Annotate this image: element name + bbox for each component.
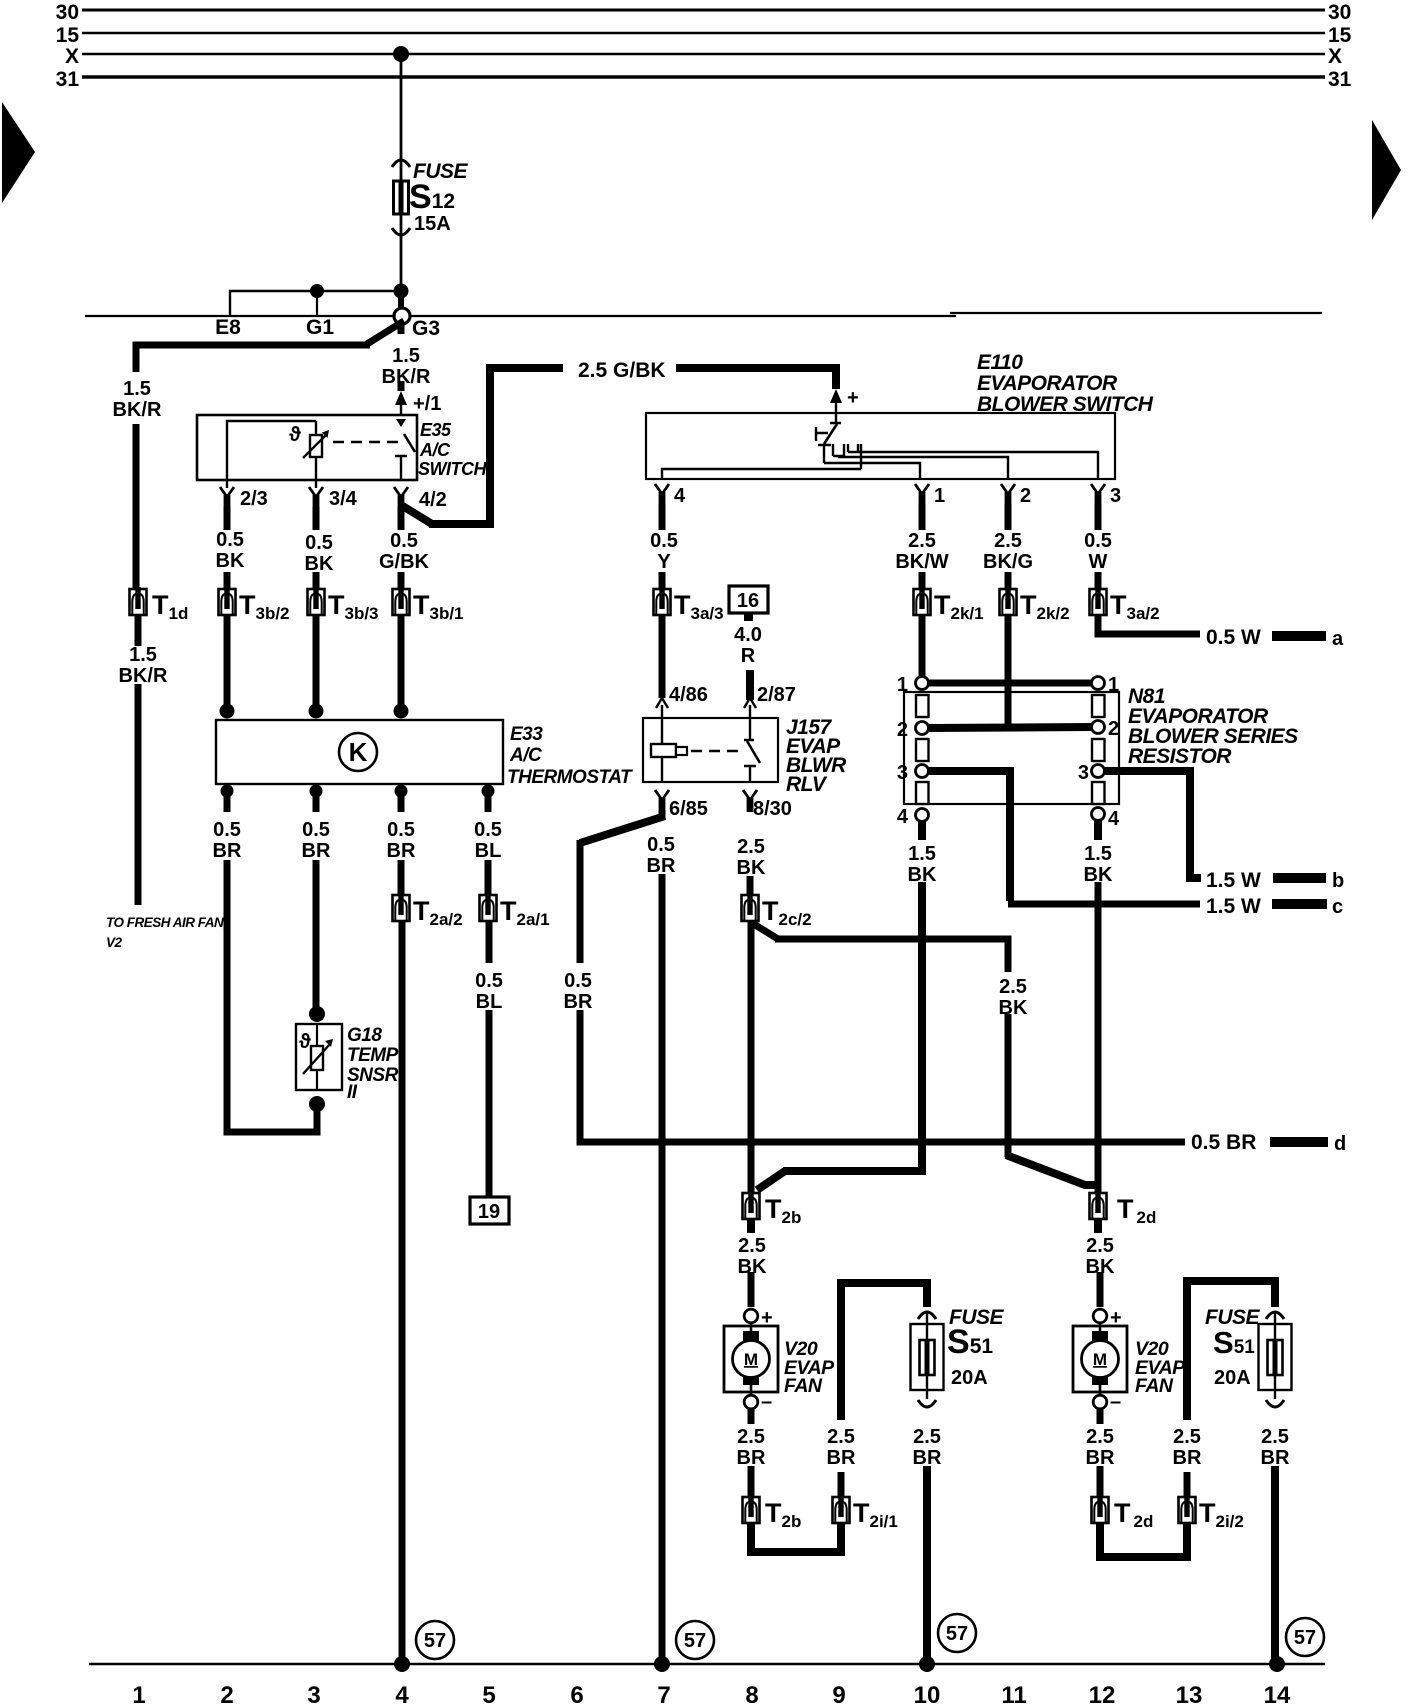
N81 right pin 1 circle — [1092, 677, 1105, 690]
wire 0.5 BR to G18 top — [313, 860, 320, 1012]
wire 2.5 BK/G — [1005, 504, 1012, 530]
wire 1.5 BK to T2d — [1095, 882, 1102, 1194]
arrow up at fuse S12 — [392, 160, 410, 167]
svg-text:5: 5 — [482, 1682, 495, 1706]
svg-text:16: 16 — [737, 590, 759, 612]
svg-text:FAN: FAN — [784, 1375, 823, 1397]
svg-text:1: 1 — [897, 674, 908, 696]
A/C switch E35 box — [197, 415, 417, 480]
pin 3 E110 — [1091, 484, 1105, 506]
svg-text:E110: E110 — [977, 351, 1023, 374]
pin 4/86 arrow — [656, 698, 668, 708]
junction G18 top — [309, 1006, 325, 1022]
wire 2.5 BK branch diagonal — [752, 923, 778, 939]
wire 2.5 BR to T2b lower — [748, 1466, 755, 1496]
svg-text:BL: BL — [475, 840, 502, 862]
connector T2d lower — [1092, 1495, 1109, 1523]
pin 2/3 — [220, 487, 234, 509]
wire 1.5 BK left stub — [918, 821, 926, 840]
wire 2.5 G/BK riser — [429, 368, 563, 524]
wire a stub — [1272, 631, 1326, 641]
wire 0.5 Y — [659, 504, 666, 530]
svg-text:BR: BR — [647, 855, 676, 877]
svg-text:2.5: 2.5 — [994, 530, 1022, 552]
svg-text:1.5: 1.5 — [1084, 843, 1112, 865]
wire 0.5 G/BK pin 4/2 stub — [398, 507, 405, 530]
svg-text:2.5: 2.5 — [737, 836, 765, 858]
svg-text:7: 7 — [657, 1682, 670, 1706]
N81 left pin 4 circle — [916, 809, 929, 822]
svg-text:2: 2 — [897, 719, 908, 741]
svg-text:M: M — [1093, 1350, 1107, 1369]
svg-text:ϑ: ϑ — [299, 1031, 311, 1053]
bus line 30 — [82, 9, 1325, 12]
node G3 terminal circle — [394, 308, 410, 324]
svg-text:c: c — [1332, 896, 1343, 918]
svg-text:31: 31 — [56, 68, 80, 91]
svg-text:A/C: A/C — [509, 745, 542, 766]
svg-text:4: 4 — [395, 1682, 409, 1706]
svg-text:BR: BR — [213, 840, 242, 862]
motor V20 evap fan left — [748, 1272, 755, 1307]
connector T2b upper — [743, 1191, 760, 1219]
temp sensor G18 box — [296, 1024, 342, 1090]
wire 2.5 BK T2c/2 to T2b — [748, 921, 755, 1194]
junction on bus X — [393, 46, 409, 62]
connector T1d — [130, 587, 147, 615]
ground junction col 14 — [1269, 1656, 1285, 1672]
selector contacts E110 — [818, 445, 920, 479]
wire 0.5 W — [1095, 504, 1102, 530]
wire above T2i/2 — [1184, 1472, 1191, 1498]
svg-text:E8: E8 — [215, 316, 241, 339]
svg-text:BK/G: BK/G — [983, 551, 1033, 573]
wire stub above E35 — [398, 381, 405, 391]
connector T3b/2 — [219, 587, 236, 615]
svg-text:d: d — [1334, 1133, 1346, 1155]
svg-text:M: M — [744, 1350, 758, 1369]
wire 2.5 BR to ground col 10 — [923, 1466, 931, 1662]
stub to G3 — [398, 291, 404, 310]
wire c 1.5 W — [1008, 901, 1200, 908]
connector T2d upper — [1090, 1191, 1107, 1219]
svg-text:4/86: 4/86 — [669, 684, 708, 706]
svg-text:2.5: 2.5 — [999, 976, 1027, 998]
wire 0.5 BR diagonal — [580, 816, 665, 843]
svg-text:1.5 W: 1.5 W — [1206, 869, 1261, 892]
switch contact E35 — [396, 419, 406, 427]
wire 0.5 BL to terminal 19 — [486, 1010, 493, 1197]
relay contact J157 — [744, 718, 754, 740]
svg-text:THERMOSTAT: THERMOSTAT — [507, 767, 633, 788]
wire T2b to T2i/1 loop — [751, 1523, 841, 1552]
relay J157 box — [643, 718, 778, 782]
X distribution bus line — [85, 315, 956, 317]
thermostat bottom pin — [221, 785, 234, 798]
wire to T3b/3 — [313, 572, 320, 590]
svg-text:3: 3 — [307, 1682, 320, 1706]
wire d run — [580, 1010, 1185, 1142]
svg-text:BK: BK — [737, 857, 766, 879]
pin 2/3 lead — [226, 480, 228, 488]
svg-text:2.5: 2.5 — [908, 530, 936, 552]
node E8 bracket wire — [230, 291, 401, 316]
ground 57 col 4 — [416, 1621, 454, 1659]
wire 2.5 BK diagonal to T2d — [1006, 1155, 1097, 1185]
svg-text:BR: BR — [302, 840, 331, 862]
junction G1 — [310, 284, 324, 298]
wire 1.5 BK/R horizontal run — [136, 345, 370, 372]
svg-text:57: 57 — [424, 1630, 446, 1652]
pin 1 E110 — [915, 484, 929, 506]
svg-text:3: 3 — [1110, 485, 1121, 507]
pin +/1 lead — [400, 404, 402, 415]
ground junction col 7 — [654, 1656, 670, 1672]
wire c stub — [1272, 899, 1327, 909]
wire to T2k/1 — [919, 572, 926, 590]
connector T3b/1 — [393, 587, 410, 615]
junction G18 bottom — [309, 1096, 325, 1112]
wire 0.5 BR down — [577, 840, 584, 963]
svg-text:0.5: 0.5 — [650, 530, 678, 552]
evaporator blower switch E110 box — [646, 413, 1115, 479]
svg-text:0.5: 0.5 — [647, 834, 675, 856]
svg-text:6/85: 6/85 — [669, 798, 708, 820]
svg-text:0.5: 0.5 — [302, 819, 330, 841]
svg-text:4: 4 — [1108, 808, 1120, 830]
svg-text:13: 13 — [1176, 1682, 1203, 1706]
A/C thermostat E33 box — [216, 720, 503, 784]
svg-text:2.5: 2.5 — [827, 1426, 855, 1448]
arrow down at fuse S12 — [392, 228, 410, 235]
fuse S12 body — [394, 181, 409, 214]
wire 0.5 BL below T2a/1 — [486, 921, 493, 963]
svg-text:30: 30 — [1328, 1, 1351, 24]
svg-text:0.5: 0.5 — [305, 532, 333, 554]
svg-text:4.0: 4.0 — [734, 624, 762, 646]
svg-text:0.5: 0.5 — [387, 819, 415, 841]
wire below 6/85 — [659, 810, 666, 818]
svg-text:57: 57 — [946, 1623, 968, 1645]
svg-text:15: 15 — [1328, 24, 1352, 47]
bus line 15 — [82, 32, 1325, 34]
wire N81 link 1 — [928, 680, 1092, 687]
thermostat bottom pin — [395, 785, 408, 798]
thermostat pin stub — [485, 793, 492, 812]
svg-text:2/87: 2/87 — [757, 684, 796, 706]
svg-text:1.5: 1.5 — [129, 644, 157, 666]
thermostat symbol K — [339, 733, 377, 771]
right page arrow — [1372, 120, 1401, 220]
svg-text:3/4: 3/4 — [329, 488, 358, 510]
motor V20 evap fan right — [1097, 1272, 1104, 1307]
pin 2 E110 — [1001, 484, 1015, 506]
svg-text:19: 19 — [478, 1201, 500, 1223]
connector T2i/2 — [1179, 1495, 1196, 1523]
svg-text:2.5: 2.5 — [737, 1426, 765, 1448]
bottom ground bus — [89, 1663, 1325, 1666]
wire T2i/1 to fuse S51 — [841, 1283, 927, 1420]
svg-text:6: 6 — [570, 1682, 583, 1706]
svg-text:1.5: 1.5 — [123, 378, 151, 400]
svg-text:1.5: 1.5 — [392, 345, 420, 367]
wire to thermostat pin 2 — [313, 615, 320, 706]
wire 0.5 BK pin 3/4 — [313, 507, 320, 530]
wire d stub — [1270, 1137, 1328, 1147]
svg-text:II: II — [347, 1082, 358, 1103]
ground 57 col 7 — [676, 1621, 714, 1659]
svg-text:BK: BK — [216, 550, 245, 572]
svg-text:BR: BR — [737, 1447, 766, 1469]
svg-text:20A: 20A — [1214, 1367, 1251, 1389]
bus line X — [82, 53, 1325, 55]
wire T2i/2 to fuse S51 right — [1187, 1281, 1275, 1420]
N81 right pin 3 circle — [1092, 765, 1105, 778]
wire 1.5 BK/R down to T1d — [133, 424, 140, 590]
svg-text:1.5: 1.5 — [908, 843, 936, 865]
svg-text:0.5: 0.5 — [390, 530, 418, 552]
wire 0.5 Y to relay pin 4/86 — [659, 615, 666, 698]
wire above T2i/1 — [838, 1472, 845, 1498]
wire to T3b/2 — [224, 572, 231, 590]
N81 left pin 2 circle — [916, 722, 929, 735]
wire T2d to T2i/2 loop — [1100, 1523, 1187, 1557]
svg-text:W: W — [1089, 551, 1108, 573]
svg-text:G/BK: G/BK — [379, 551, 430, 573]
evaporator blower series resistor N81 box — [904, 692, 1119, 804]
svg-text:57: 57 — [684, 1630, 706, 1652]
wire 1.5 BK diagonal to T2b — [757, 1171, 785, 1190]
svg-text:1: 1 — [132, 1682, 145, 1706]
svg-text:BR: BR — [913, 1447, 942, 1469]
svg-text:2.5: 2.5 — [1173, 1426, 1201, 1448]
svg-text:8: 8 — [745, 1682, 758, 1706]
svg-text:RESISTOR: RESISTOR — [1128, 745, 1232, 768]
wire below T1d — [135, 615, 142, 646]
N81 right pin 4 circle — [1092, 808, 1105, 821]
svg-text:BK: BK — [999, 997, 1028, 1019]
svg-text:ϑ: ϑ — [289, 424, 301, 446]
svg-text:Y: Y — [657, 551, 671, 573]
potentiometer in E35 — [315, 421, 317, 435]
junction thermostat pin 2 — [309, 704, 324, 719]
wire to thermostat pin 3 — [398, 615, 405, 706]
wire to T3a/3 — [659, 572, 666, 590]
junction thermostat pin 1 — [220, 704, 235, 719]
svg-text:2.5: 2.5 — [1086, 1426, 1114, 1448]
pin 4 E110 — [655, 484, 669, 506]
wire 0.5 BR to G18 bottom — [227, 860, 317, 1132]
pin 6/85 — [655, 790, 669, 812]
connector T2k/2 — [1000, 587, 1017, 615]
svg-text:30: 30 — [56, 1, 79, 24]
svg-text:3: 3 — [1078, 762, 1089, 784]
svg-text:SWITCH: SWITCH — [418, 459, 487, 479]
svg-text:2: 2 — [1020, 485, 1031, 507]
svg-text:15: 15 — [56, 24, 80, 47]
svg-text:G3: G3 — [412, 317, 440, 340]
pin + arrow E110 — [830, 389, 842, 403]
svg-text:10: 10 — [914, 1682, 941, 1706]
pin + lead E110 — [835, 402, 837, 422]
svg-text:+: + — [847, 387, 859, 409]
svg-text:BR: BR — [827, 1447, 856, 1469]
bus line 31 — [82, 75, 1325, 78]
svg-text:0.5: 0.5 — [564, 970, 592, 992]
junction above G3 — [394, 284, 409, 299]
svg-text:BR: BR — [1086, 1447, 1115, 1469]
svg-text:BK/R: BK/R — [119, 665, 168, 687]
svg-text:1: 1 — [1108, 674, 1119, 696]
wire G1 to bus — [316, 291, 318, 316]
N81 left pin 1 circle — [916, 677, 929, 690]
pin 2/87 lead — [749, 705, 751, 718]
svg-text:57: 57 — [1294, 1627, 1316, 1649]
fuse S51 left — [918, 1312, 936, 1319]
connector T2i/1 — [833, 1495, 850, 1523]
svg-text:R: R — [741, 645, 756, 667]
wire b 1.5 W — [1104, 771, 1201, 878]
svg-text:FAN: FAN — [1135, 1375, 1174, 1397]
left page arrow — [2, 102, 35, 203]
svg-text:4/2: 4/2 — [419, 489, 447, 511]
wire 4.0 R to relay — [746, 670, 754, 700]
svg-text:2.5 G/BK: 2.5 G/BK — [578, 359, 666, 382]
svg-text:20A: 20A — [951, 1367, 988, 1389]
pin 8/30 — [743, 790, 757, 812]
terminal box 19 — [470, 1197, 509, 1224]
svg-text:BL: BL — [476, 991, 503, 1013]
wire 2.5 BK to fan V20 right — [1094, 1219, 1102, 1233]
switch wiper E110 — [824, 423, 841, 444]
pin +/1 arrow — [395, 391, 407, 405]
svg-text:BK: BK — [305, 553, 334, 575]
dashed link E35 — [333, 441, 398, 444]
thermostat pin stub — [398, 793, 405, 812]
thermostat bottom pin — [482, 785, 495, 798]
pin 3/4 — [309, 487, 323, 509]
wire stub below G3 — [398, 325, 405, 334]
svg-text:E35: E35 — [420, 420, 452, 440]
svg-text:K: K — [349, 737, 368, 767]
svg-text:X: X — [65, 45, 79, 68]
connector T2a/1 — [480, 893, 497, 921]
dashed link J157 — [691, 750, 744, 753]
wire 0.5 BK pin 2/3 — [224, 507, 231, 530]
svg-text:a: a — [1332, 628, 1344, 650]
ground junction col 4 — [394, 1656, 410, 1672]
svg-text:BR: BR — [387, 840, 416, 862]
svg-text:BK/W: BK/W — [895, 551, 948, 573]
wire 2.5 G/BK diagonal from pin 4/2 — [401, 505, 432, 524]
pin 4/2 — [394, 487, 408, 509]
svg-text:BLOWER SWITCH: BLOWER SWITCH — [977, 393, 1154, 416]
svg-text:0.5: 0.5 — [474, 819, 502, 841]
svg-text:2: 2 — [220, 1682, 233, 1706]
svg-text:2/3: 2/3 — [240, 488, 268, 510]
svg-text:RLV: RLV — [786, 773, 828, 796]
svg-text:0.5 BR: 0.5 BR — [1191, 1131, 1256, 1154]
svg-text:0.5: 0.5 — [213, 819, 241, 841]
wire 2.5 G/BK to E110 — [676, 368, 836, 389]
wire col 4 to ground — [399, 921, 406, 1662]
connector T2k/1 — [914, 587, 931, 615]
pin 2/87 arrow — [744, 698, 756, 708]
N81 resistor elements left — [916, 695, 929, 717]
connector T2c/2 — [742, 893, 759, 921]
pin 4/86 lead — [661, 705, 663, 718]
svg-text:14: 14 — [1264, 1682, 1291, 1706]
connector T3a/2 — [1090, 587, 1107, 615]
wire 0.5 BL col 5 — [485, 860, 492, 896]
svg-text:9: 9 — [832, 1682, 845, 1706]
wire 1.5 BK/R to fresh air fan — [135, 684, 142, 905]
wire 2.5 BK down — [1005, 1014, 1012, 1157]
svg-text:2: 2 — [1108, 718, 1119, 740]
svg-text:0.5: 0.5 — [1084, 530, 1112, 552]
wire 2.5 BR to T2d lower — [1097, 1466, 1104, 1496]
terminal box 16 — [729, 586, 768, 613]
wire N81 pin3 to c — [928, 771, 1010, 901]
wire 2.5 BK to fan V20 — [747, 1219, 755, 1233]
svg-text:0.5: 0.5 — [216, 529, 244, 551]
fuse S51 right — [1266, 1312, 1284, 1319]
svg-text:11: 11 — [1001, 1682, 1026, 1706]
wire to N81 pin 2 bus — [1005, 615, 1012, 727]
wire a 0.5 W — [1098, 615, 1200, 634]
svg-text:X: X — [1328, 45, 1342, 68]
svg-text:0.5: 0.5 — [475, 970, 503, 992]
wire 1.5 BK/R diagonal from G3 — [367, 321, 404, 344]
svg-text:EVAPORATOR: EVAPORATOR — [977, 372, 1118, 395]
wire 0.5 BR col 4 — [398, 860, 405, 896]
thermostat pin stub — [224, 793, 231, 812]
wire 1.5 BK to T2b jog — [783, 882, 922, 1171]
junction thermostat pin 3 — [394, 704, 409, 719]
wire 2.5 BK to T2c/2 — [747, 876, 754, 896]
wire b stub — [1273, 873, 1326, 883]
svg-text:BR: BR — [1261, 1447, 1290, 1469]
wire to N81 pin 1 — [919, 615, 926, 680]
connector T2a/2 — [393, 893, 410, 921]
wire to T2k/2 — [1005, 572, 1012, 590]
svg-text:–: – — [1110, 1391, 1121, 1413]
wire to thermostat pin 1 — [224, 615, 231, 706]
thermostat bottom pin — [310, 785, 323, 798]
wire N81 link 2 — [928, 727, 1092, 728]
svg-text:b: b — [1332, 870, 1344, 892]
svg-text:2.5: 2.5 — [738, 1235, 766, 1257]
pin 3/4 lead — [315, 457, 317, 488]
svg-text:BK/R: BK/R — [113, 399, 162, 421]
svg-text:1.5 W: 1.5 W — [1206, 895, 1261, 918]
svg-text:8/30: 8/30 — [753, 798, 792, 820]
wire 1.5 BK right stub — [1094, 820, 1102, 840]
svg-text:BK/R: BK/R — [382, 366, 431, 388]
wire 2.5 BR to ground col 14 — [1271, 1466, 1279, 1662]
svg-text:+/1: +/1 — [413, 393, 441, 415]
svg-text:2.5: 2.5 — [1086, 1235, 1114, 1257]
wire from bus X to fuse S12 — [400, 54, 403, 290]
N81 left pin 3 circle — [916, 765, 929, 778]
svg-text:4: 4 — [897, 806, 909, 828]
svg-text:BR: BR — [1173, 1447, 1202, 1469]
svg-text:BR: BR — [564, 991, 593, 1013]
svg-text:G1: G1 — [306, 316, 334, 339]
svg-text:31: 31 — [1328, 68, 1352, 91]
ground 57 col 10 — [938, 1614, 976, 1652]
svg-text:TO FRESH AIR FAN,: TO FRESH AIR FAN, — [106, 915, 227, 930]
